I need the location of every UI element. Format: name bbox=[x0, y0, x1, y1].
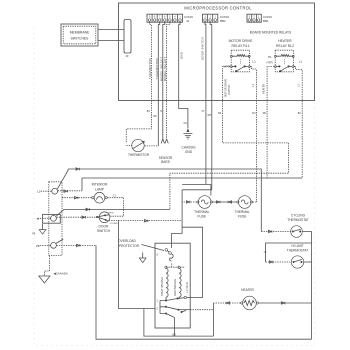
svg-text:DOOR: DOOR bbox=[99, 225, 110, 229]
svg-text:BK: BK bbox=[298, 113, 302, 115]
switch RL2 bbox=[274, 66, 276, 68]
svg-text:J4: J4 bbox=[186, 19, 190, 23]
coil RL1 bbox=[230, 55, 232, 57]
cycling thermostat bbox=[261, 214, 311, 340]
svg-text:J3: J3 bbox=[125, 54, 129, 58]
svg-text:OVERLOAD: OVERLOAD bbox=[118, 239, 136, 243]
svg-text:HEATER: HEATER bbox=[261, 84, 265, 94]
svg-text:GND: GND bbox=[185, 150, 193, 154]
svg-text:HEATER: HEATER bbox=[278, 39, 292, 43]
svg-text:DOOR SWITCH: DOOR SWITCH bbox=[200, 37, 204, 60]
svg-text:SWITCH: SWITCH bbox=[97, 229, 111, 233]
svg-text:BOARD MOUNTED RELAYS: BOARD MOUNTED RELAYS bbox=[250, 30, 292, 34]
winding top rail bbox=[166, 264, 185, 268]
svg-text:RELAY RL2: RELAY RL2 bbox=[276, 44, 294, 48]
svg-text:PROTECTOR: PROTECTOR bbox=[119, 244, 140, 248]
wire L1 bus to cycling thermostat bbox=[68, 169, 261, 232]
svg-text:◀CANADA: ◀CANADA bbox=[54, 271, 68, 275]
svg-text:MICROPROCESSOR CONTROL: MICROPROCESSOR CONTROL bbox=[184, 6, 252, 11]
svg-text:SWITCHES: SWITCHES bbox=[71, 37, 90, 41]
connector J4 bbox=[147, 14, 193, 23]
svg-text:THERMAL: THERMAL bbox=[235, 210, 250, 214]
connector BB1 bbox=[247, 14, 272, 23]
terminal L1 bbox=[52, 188, 58, 194]
ground motor bbox=[142, 253, 144, 259]
svg-text:L1: L1 bbox=[37, 190, 41, 194]
svg-text:P1: P1 bbox=[268, 55, 272, 59]
svg-text:MOTOR DRIVE: MOTOR DRIVE bbox=[224, 78, 228, 97]
switch RL1 bbox=[230, 66, 232, 68]
canada ground bbox=[39, 256, 68, 284]
svg-text:BB2: BB2 bbox=[220, 19, 226, 23]
svg-text:OPEN: OPEN bbox=[108, 212, 114, 214]
wire J4 pin1 chassis gnd bbox=[179, 22, 188, 128]
wire membrane to J3 bbox=[98, 29, 124, 31]
svg-text:BU: BU bbox=[147, 111, 151, 113]
svg-text:CHASSIS: CHASSIS bbox=[182, 145, 196, 149]
sensor bars bbox=[159, 139, 173, 164]
wire RL1 L1 output bbox=[250, 67, 256, 202]
wire hot bus to heater relay L1 bbox=[82, 178, 302, 191]
svg-text:1-2 HELIX: 1-2 HELIX bbox=[186, 282, 189, 293]
thermal fuse F2 bbox=[235, 196, 253, 219]
svg-text:SENSOR: SENSOR bbox=[159, 156, 173, 160]
wire J4 pin9 to thermistor bbox=[126, 22, 151, 143]
svg-text:HEATER: HEATER bbox=[241, 288, 254, 292]
svg-text:WH: WH bbox=[208, 115, 212, 117]
svg-text:FUSE: FUSE bbox=[238, 214, 247, 218]
svg-text:RELAY RL1: RELAY RL1 bbox=[232, 44, 250, 48]
svg-text:HI LIMIT: HI LIMIT bbox=[291, 244, 303, 248]
svg-text:MODEL SELECT: MODEL SELECT bbox=[163, 56, 167, 81]
wire door to motor common bbox=[119, 220, 155, 308]
interior lamp bbox=[62, 182, 124, 216]
centrifugal switch bbox=[165, 297, 167, 300]
svg-text:GND: GND bbox=[180, 52, 184, 59]
chassis ground bbox=[182, 128, 196, 154]
svg-text:GN: GN bbox=[184, 123, 188, 125]
thermal fuse F1 bbox=[194, 196, 212, 219]
wire between fuses bbox=[213, 201, 237, 203]
wire L2 down to bottom bbox=[96, 245, 312, 339]
terminal block bbox=[32, 169, 96, 256]
wire to motor common bottom bbox=[144, 309, 214, 337]
connector BB2 bbox=[203, 14, 229, 23]
svg-text:INTERIOR: INTERIOR bbox=[92, 182, 108, 186]
svg-text:BU: BU bbox=[252, 113, 256, 115]
svg-text:FUSE: FUSE bbox=[198, 214, 207, 218]
motor box M1 bbox=[118, 239, 190, 336]
svg-text:L2: L2 bbox=[36, 244, 40, 248]
wire BB2 pin2 bbox=[210, 22, 212, 190]
svg-text:MOTOR DRIVE: MOTOR DRIVE bbox=[229, 39, 254, 43]
wire BB2 pin3 bbox=[204, 22, 207, 184]
thermistor RT1 bbox=[126, 139, 158, 157]
wire BB2 cluster to fuse bbox=[182, 185, 211, 196]
svg-text:RD: RD bbox=[154, 116, 158, 118]
svg-text:N: N bbox=[37, 217, 39, 221]
overload protector symbol bbox=[165, 249, 168, 252]
wire neutral bus to motor bbox=[56, 209, 170, 216]
relay RL2 heater bbox=[267, 39, 303, 72]
svg-text:THERMISTOR: THERMISTOR bbox=[128, 153, 150, 157]
wire fuse2 to relay L1 bbox=[253, 201, 257, 202]
page border dotted bbox=[34, 28, 315, 346]
wire RL1 MTR output bbox=[170, 67, 289, 210]
microprocessor control box U1 bbox=[119, 3, 315, 101]
relay RL1 motor drive bbox=[224, 39, 257, 72]
wire motor lower right exit bbox=[190, 309, 213, 311]
coil RL2 bbox=[274, 55, 276, 57]
heater element bbox=[214, 288, 312, 336]
svg-text:CYCLING: CYCLING bbox=[291, 214, 306, 218]
svg-text:MAIN WINDING: MAIN WINDING bbox=[174, 279, 177, 296]
svg-text:CLOSED: CLOSED bbox=[110, 223, 119, 225]
wire RL2 L1 output bbox=[294, 67, 302, 178]
svg-text:HTR: HTR bbox=[267, 61, 274, 65]
wire J4 pin7 thermistor return bbox=[158, 22, 159, 146]
svg-text:THERMISTOR: THERMISTOR bbox=[148, 58, 152, 79]
svg-text:LAMP: LAMP bbox=[95, 187, 105, 191]
wire motor feed right bbox=[182, 227, 202, 297]
wire J4 pin5 sensor bar 2 bbox=[167, 22, 170, 139]
svg-text:BB1: BB1 bbox=[263, 19, 269, 23]
svg-text:THERMAL: THERMAL bbox=[194, 210, 209, 214]
hi limit thermostat bbox=[264, 243, 312, 268]
wire membrane to J3 bbox=[98, 40, 124, 42]
svg-text:L1: L1 bbox=[299, 60, 303, 64]
svg-text:BK: BK bbox=[218, 113, 222, 115]
svg-text:THERMOSTAT: THERMOSTAT bbox=[287, 249, 309, 253]
wire fuse branch vertical to motor bbox=[172, 190, 183, 248]
terminal N bbox=[43, 214, 61, 223]
svg-text:MEMBRANE: MEMBRANE bbox=[70, 31, 90, 35]
main winding bbox=[179, 268, 181, 297]
start winding bbox=[166, 268, 168, 297]
door switch bbox=[96, 212, 118, 233]
svg-text:RD: RD bbox=[263, 113, 267, 115]
wire door lower contact to fuse branch bbox=[107, 219, 183, 221]
terminal L2 bbox=[51, 243, 57, 249]
svg-text:START WINDING: START WINDING bbox=[161, 277, 164, 296]
svg-text:THERMOSTAT: THERMOSTAT bbox=[287, 218, 309, 222]
svg-text:OUTPUT: OUTPUT bbox=[227, 84, 231, 95]
svg-text:BARS: BARS bbox=[161, 160, 170, 164]
wire RL2 HTR output bbox=[267, 67, 274, 178]
wire J4 pin6 sensor bar 1 bbox=[163, 22, 165, 139]
ground at N bbox=[42, 224, 44, 230]
wire code labels bbox=[147, 111, 302, 125]
wire fuse1 left to door branch bbox=[182, 201, 197, 202]
svg-text:L1: L1 bbox=[253, 60, 257, 64]
svg-text:THERMISTOR: THERMISTOR bbox=[155, 58, 159, 79]
membrane switches box bbox=[61, 24, 98, 46]
connector J3 bbox=[124, 20, 131, 54]
